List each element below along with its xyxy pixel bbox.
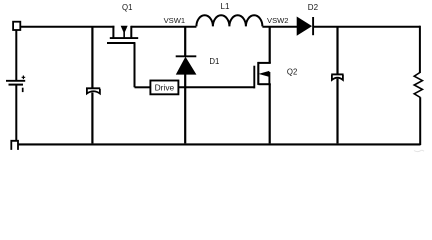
wire gate lead to drive block [135,86,151,88]
Q2 channel bar [257,62,259,85]
capacitor C2 (output) [331,74,343,80]
terminal input negative (bottom-left bracket) [11,141,18,150]
svg-text:D1: D1 [209,57,219,66]
wire input capacitor bottom [91,93,93,144]
wire drive output to Q2 gate [178,86,254,88]
wire top rail VSW2 segment [262,26,297,28]
wire output capacitor bottom [336,79,338,144]
battery V1 plate negative [9,84,24,86]
resistor R1 (load) [414,73,422,98]
terminal input positive (top-left square) [13,22,20,30]
wire top rail left segment [21,26,115,28]
Q2 drain stub [258,62,270,64]
diode D1 [176,56,197,74]
D2 triangle [297,17,312,35]
wire top rail middle segment [131,26,196,28]
D1 triangle [176,57,196,74]
diode D2 [297,17,313,35]
wire VSW2 to Q2 drain [269,27,271,63]
wire bottom rail [18,143,421,145]
Q2 gate bar [253,66,255,89]
transistor Q1 (PMOS high-side switch) [107,26,138,43]
svg-text:D2: D2 [308,3,319,12]
inductor L1 [196,15,262,26]
svg-text:VSW1: VSW1 [164,16,186,25]
wire input capacitor top [91,27,93,88]
wire top rail right segment [314,26,420,28]
Q2 arrow-to-source link [268,72,270,84]
Q1 channel bar [110,37,138,39]
wire VSW1 node to D1 cathode [184,27,186,56]
svg-text:Q1: Q1 [122,3,132,12]
wire right branch upper [419,26,421,73]
Q1 source leg [112,26,114,38]
wire Q2 source to bottom rail [269,84,271,143]
Q1 gate bar [107,42,135,44]
D1 cathode bar [176,55,197,57]
svg-text:Q2: Q2 [287,68,297,77]
faint artifact bottom right [414,150,424,151]
svg-text:L1: L1 [221,2,230,11]
wire Q1 gate lead down [134,43,136,87]
svg-text:Drive: Drive [155,83,175,93]
battery V1 plate positive [6,80,25,82]
Q2 body arrow [260,71,269,76]
Q1 body arrow [121,26,127,33]
transistor Q2 (NMOS low-side switch) [254,62,270,89]
wire right branch lower [419,97,421,145]
battery V1 plus sign [22,76,26,80]
wire left branch upper [15,30,17,80]
wire output capacitor top [336,27,338,75]
battery V1 minus tick [22,88,24,92]
capacitor C1 (input) [86,88,100,93]
Q1 drain leg [130,26,132,38]
wire D1 anode down to bottom rail [184,74,186,144]
svg-text:VSW2: VSW2 [267,16,289,25]
D2 cathode bar [312,17,314,35]
Q2 source stub [258,83,270,85]
drive block U1 [150,81,178,95]
wire left branch lower [15,85,17,141]
